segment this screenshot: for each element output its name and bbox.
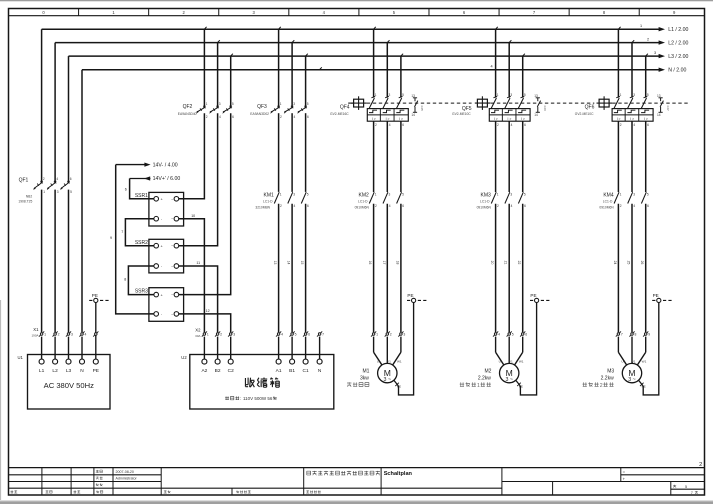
svg-text:W1: W1 [519,360,524,364]
svg-text:KM3: KM3 [481,193,492,199]
svg-text:EA9AN3D02: EA9AN3D02 [250,112,269,116]
svg-text:U1: U1 [377,360,381,364]
wire motor M1 PE [394,303,414,395]
motor M1 3kw 3-phase [347,360,402,387]
wire bus taps to QF6 [618,29,645,97]
svg-text:2007-08-20: 2007-08-20 [116,470,134,474]
svg-text:C2: C2 [228,368,234,374]
wire X3 to motor M3 [618,337,645,366]
svg-text:3: 3 [293,102,295,106]
svg-text:M3: M3 [607,368,614,374]
wire QF2 pole3 to SSR3 [179,113,231,294]
svg-text:2: 2 [375,204,377,208]
svg-text:3 ~: 3 ~ [384,377,392,383]
svg-text:3: 3 [654,51,656,55]
svg-text:AC 380V 50Hz: AC 380V 50Hz [44,381,94,390]
svg-text:5: 5 [70,190,72,194]
svg-text:18: 18 [395,261,399,265]
svg-text:LC1-D: LC1-D [603,200,613,204]
wire bus taps to QF3 [278,29,280,107]
svg-text:2: 2 [280,204,282,208]
motor M2 2.2kw 3-phase [460,360,524,389]
svg-text:4: 4 [511,204,513,208]
svg-text:3 ~: 3 ~ [505,377,513,383]
svg-text:2: 2 [620,204,622,208]
svg-text:13: 13 [411,94,415,98]
svg-text:3: 3 [633,192,635,196]
terminal strip X2 30A [195,327,324,338]
motor breaker QF5 GV2-ME10C [452,93,547,127]
device U2 heater box shrink tunnel [181,355,333,410]
svg-text:2: 2 [280,115,282,119]
svg-text:2: 2 [220,333,222,337]
svg-text:4: 4 [294,115,296,119]
svg-text:QF6: QF6 [585,105,595,111]
svg-text:1: 1 [640,24,642,28]
wire QF3 to KM1 [278,113,280,192]
svg-text:13: 13 [657,94,661,98]
svg-text:1: 1 [280,192,282,196]
svg-text:9: 9 [648,333,650,337]
svg-text:3210MBN: 3210MBN [255,205,270,209]
svg-text:1: 1 [207,333,209,337]
svg-text:5: 5 [647,93,649,97]
svg-text:L3 / 2.00: L3 / 2.00 [668,54,688,60]
svg-text:4: 4 [498,333,500,337]
svg-text:3: 3 [233,333,235,337]
svg-text:2.2kw: 2.2kw [601,375,614,381]
svg-text:16: 16 [368,261,372,265]
svg-text:I >: I > [521,117,525,121]
wire QF2 pole1 to SSR1 [179,113,205,199]
svg-text:2: 2 [647,37,649,41]
wire KM4 to X3 with numbers 24 25 26 [613,204,646,332]
svg-text:3: 3 [219,102,221,106]
svg-text:KM4: KM4 [603,193,614,199]
wire motor M2 PE [516,303,537,395]
wire L2 feeder to QF1 [54,43,56,182]
svg-text:U1: U1 [621,360,625,364]
svg-text:6: 6 [232,115,234,119]
wire QF5 to KM3 [496,121,523,192]
svg-text:25: 25 [627,261,631,265]
wire X1 to U1 terminals [42,337,82,360]
svg-text:SSR3: SSR3 [135,288,148,294]
svg-text:6: 6 [308,333,310,337]
svg-text:B2: B2 [215,368,221,374]
svg-text:3: 3 [633,93,635,97]
PE symbol for motor M2 [530,293,551,303]
svg-text:5: 5 [402,93,404,97]
wire 12 SSR3 to X2:3 [179,309,231,332]
contactor KM3 LC1-D 0910MBN [477,192,526,209]
contactor KM4 LC1-D 0910MBN [599,192,649,209]
svg-text:0910M6N: 0910M6N [477,205,492,209]
svg-text:5: 5 [685,485,687,489]
svg-text:1: 1 [497,93,499,97]
svg-text:26: 26 [640,261,644,265]
svg-text:2: 2 [620,123,622,127]
wire L3 feeder to QF1 [68,56,70,182]
svg-text:15: 15 [300,261,304,265]
svg-text:1: 1 [44,333,46,337]
terminal strip X3 terminals 4-6 [493,331,527,336]
svg-text:X2: X2 [195,327,201,332]
svg-text:6: 6 [402,123,404,127]
svg-text:5: 5 [524,192,526,196]
svg-text:I >: I > [494,117,498,121]
svg-text:110V 500W 56: 110V 500W 56 [243,396,273,401]
svg-text:3kw: 3kw [360,375,369,381]
svg-text:1: 1 [620,192,622,196]
wire bus taps to QF2 [203,29,205,107]
wire bus taps to QF4 [374,29,401,97]
svg-text:L2 / 2.00: L2 / 2.00 [668,40,688,46]
svg-text:GV2-ME16C: GV2-ME16C [330,112,349,116]
svg-text:1: 1 [477,383,480,389]
svg-text:I >: I > [630,117,634,121]
wire KM2 to X3 with numbers 16 17 18 [368,204,401,332]
svg-text:6: 6 [402,204,404,208]
svg-text:4: 4 [491,65,493,69]
svg-text:2: 2 [497,123,499,127]
svg-text:I >: I > [399,117,403,121]
svg-text:I >: I > [617,117,621,121]
svg-text:6: 6 [70,177,72,181]
svg-text:I >: I > [386,117,390,121]
svg-text:LC1-D: LC1-D [480,200,490,204]
svg-text:L2: L2 [52,368,58,374]
svg-text:6: 6 [307,115,309,119]
svg-text:Schaltplan: Schaltplan [384,471,413,477]
svg-text:14V- / 4.00: 14V- / 4.00 [153,162,178,168]
wire motor M3 PE [639,303,659,395]
svg-text:2: 2 [206,115,208,119]
svg-text:0910M6N: 0910M6N [355,205,370,209]
svg-text::: : [240,396,241,401]
signal arrow 14V+ / 6.00 [130,176,181,182]
svg-text:GV2-ME10C: GV2-ME10C [452,112,471,116]
svg-text:5: 5 [232,102,234,106]
svg-text:I >: I > [508,117,512,121]
svg-text:4.07: 4.07 [666,105,670,111]
title block [9,468,705,496]
wire N feeder to X1 [81,70,83,333]
wire KM3 to X3 with numbers 20 21 22 [490,204,523,332]
svg-text:U1: U1 [499,360,503,364]
contactor KM1 LC1-D 3210MBN [255,192,309,209]
motor M3 2.2kw 3-phase [583,360,647,389]
svg-text:PE: PE [530,293,536,298]
svg-text:20: 20 [490,261,494,265]
wire QF1 to X1 phase 2 [54,190,56,333]
svg-text:W1: W1 [397,360,402,364]
wire L1 bus / 2.00 [42,28,660,30]
PE symbol for motor M3 [652,293,673,303]
svg-text:L1 / 2.00: L1 / 2.00 [668,27,688,33]
svg-text:14: 14 [411,113,415,117]
svg-text:B1: B1 [289,368,295,374]
svg-text:22: 22 [517,261,521,265]
svg-text:17: 17 [382,261,386,265]
svg-text:1: 1 [280,102,282,106]
svg-text:2: 2 [600,383,603,389]
svg-text:3 ~: 3 ~ [628,377,636,383]
svg-text:8: 8 [124,278,126,282]
wire N bus / 2.00 [82,69,660,71]
svg-text:2.2kw: 2.2kw [478,375,491,381]
svg-text:A2: A2 [201,368,207,374]
svg-text:L3: L3 [66,368,72,374]
svg-text:1: 1 [497,192,499,196]
svg-text:PE: PE [93,368,99,374]
svg-text:6: 6 [647,204,649,208]
svg-text:10: 10 [191,214,195,218]
svg-text:5: 5 [512,333,514,337]
svg-text:11: 11 [196,261,200,265]
svg-text:LC1-D: LC1-D [358,200,368,204]
svg-text:7: 7 [322,333,324,337]
motor breaker QF4 GV2-ME16C [330,93,424,127]
svg-text:KM2: KM2 [359,193,370,199]
svg-text:4: 4 [511,123,513,127]
svg-text:PE: PE [92,293,98,298]
wire 9 14V- to SSR3 [110,165,154,314]
terminal strip X3 terminals 7-9 [616,331,650,336]
svg-text:W1: W1 [642,360,647,364]
svg-text:9: 9 [110,236,112,240]
svg-text:4: 4 [389,123,391,127]
svg-text:24: 24 [613,261,617,265]
svg-text:6: 6 [647,123,649,127]
svg-text:3: 3 [389,93,391,97]
svg-text:4: 4 [219,115,221,119]
wire QF2 pole2 to SSR2 [179,113,218,246]
wire L3 bus / 2.00 [69,55,660,57]
svg-text:N: N [80,368,84,374]
svg-text:5: 5 [524,93,526,97]
svg-text:6: 6 [307,204,309,208]
svg-text:QF4: QF4 [340,105,350,111]
svg-text:4: 4 [389,204,391,208]
svg-text:190A: 190A [31,334,38,338]
wire QF4 to KM2 [374,121,401,192]
PE terminal symbol at X1 [89,293,110,303]
svg-text:3: 3 [389,192,391,196]
svg-text:4: 4 [633,204,635,208]
svg-text:1: 1 [206,102,208,106]
circuit breaker QF2 EA9AN3D40 3-pole [178,102,234,119]
svg-text:7: 7 [121,230,123,234]
svg-text:QF5: QF5 [462,106,472,112]
svg-text:2: 2 [699,462,702,468]
svg-text:I >: I > [372,117,376,121]
svg-text:6: 6 [125,188,127,192]
svg-text:3: 3 [57,190,59,194]
svg-text:6: 6 [525,333,527,337]
circuit breaker QF3 EA9AN3D32 3-pole [250,102,309,119]
svg-text:8: 8 [635,333,637,337]
svg-text:U1: U1 [18,355,24,360]
wire X2 to U2 terminals [204,337,319,360]
svg-text:A1: A1 [276,368,282,374]
wire L2 bus / 2.00 [55,42,660,44]
svg-text:6: 6 [524,123,526,127]
wire L1 feeder to QF1 [41,29,43,182]
svg-text:0910M6N: 0910M6N [599,205,614,209]
svg-text:I >: I > [644,117,648,121]
svg-text:4: 4 [85,333,87,337]
svg-text:1: 1 [375,192,377,196]
wire 8 SSR2 to SSR3 [124,266,154,295]
svg-text:1: 1 [376,333,378,337]
svg-text:Administrator: Administrator [116,477,138,481]
wire 6 14V+ to SSR1 [125,179,154,199]
svg-text:U2: U2 [181,355,187,360]
svg-text:14: 14 [534,113,538,117]
wire QF6 to KM4 [618,121,645,192]
svg-text:1: 1 [620,93,622,97]
svg-text:2: 2 [58,333,60,337]
svg-text:1908.T25: 1908.T25 [18,199,32,203]
svg-text:QF2: QF2 [183,104,193,110]
wire KM1 to X2 with numbers 13 14 15 [273,204,306,332]
svg-text:3: 3 [293,192,295,196]
svg-text:7: 7 [691,491,693,495]
svg-text:30A: 30A [195,334,200,338]
circuit breaker QF1 (NB2 1908.T25) 3-pole [18,177,72,203]
svg-text:2: 2 [390,333,392,337]
wire X3 to motor M2 [496,337,523,366]
contactor KM2 LC1-D 0910MBN [355,192,405,209]
wire X3 to motor M1 [374,337,401,366]
svg-text:3: 3 [71,333,73,337]
svg-text:SSR1: SSR1 [135,193,148,199]
wire 10 SSR1 to X2:1 [179,214,205,332]
svg-text:KM1: KM1 [264,193,275,199]
PE symbol for motor M1 [407,293,428,303]
svg-text:PE: PE [407,293,413,298]
signal arrow 14V- / 4.00 [116,162,178,168]
svg-text:3: 3 [403,333,405,337]
terminal strip X1 190A [31,327,98,338]
solid state relay SSR3 [135,288,184,322]
svg-text:LC1-D: LC1-D [263,200,273,204]
svg-text:M1: M1 [362,368,369,374]
svg-text:4: 4 [294,204,296,208]
motor breaker QF6 GV2-ME10C [575,93,670,127]
wire 11 SSR2 to X2:2 [179,261,218,332]
svg-text:1: 1 [375,93,377,97]
svg-text:PE: PE [653,293,659,298]
svg-text:14V+' / 6.00: 14V+' / 6.00 [153,176,181,182]
svg-text:L1: L1 [39,368,45,374]
solid state relay SSR1 [135,192,184,226]
svg-text:4.05: 4.05 [420,105,424,111]
svg-text:C1: C1 [303,368,309,374]
svg-text:5: 5 [307,102,309,106]
wire bus taps to QF5 [496,29,523,97]
svg-text:4: 4 [56,177,58,181]
svg-text:4.06: 4.06 [543,105,547,111]
svg-text:2: 2 [43,177,45,181]
svg-text:5: 5 [307,192,309,196]
svg-text:NB2: NB2 [26,194,33,198]
svg-text:N / 2.00: N / 2.00 [668,68,686,74]
svg-text:3: 3 [510,192,512,196]
svg-text:5: 5 [647,192,649,196]
wire QF1 to X1 phase 1 [41,190,43,333]
dashed trip linkage line QF4-QF6 [348,102,688,104]
svg-text:N: N [318,368,322,374]
svg-text:1: 1 [43,190,45,194]
svg-text:M2: M2 [484,368,491,374]
svg-text:4: 4 [633,123,635,127]
svg-text:14: 14 [287,261,291,265]
device U1 AC 380V 50Hz supply box [18,355,111,410]
svg-text:6: 6 [524,204,526,208]
wire 7 SSR1 to SSR2 [121,219,154,246]
svg-text:QF3: QF3 [257,104,267,110]
svg-text:QF1: QF1 [19,178,29,184]
svg-text:13: 13 [273,261,277,265]
svg-text:13: 13 [534,94,538,98]
svg-text:2: 2 [375,123,377,127]
svg-text:2: 2 [497,204,499,208]
svg-text:5: 5 [295,333,297,337]
svg-text:EA9AN3D40: EA9AN3D40 [178,112,197,116]
svg-text:14: 14 [657,113,661,117]
svg-text:12: 12 [206,309,210,313]
svg-text:GV2-ME10C: GV2-ME10C [575,112,594,116]
svg-text:7: 7 [621,333,623,337]
svg-text:X1: X1 [33,327,39,332]
svg-text:5: 5 [402,192,404,196]
wire PE to U1 [95,303,97,360]
svg-text:4: 4 [281,333,283,337]
solid state relay SSR2 [135,239,184,273]
terminal strip X3 terminals 1-3 [371,331,405,336]
svg-text:3: 3 [510,93,512,97]
svg-text:21: 21 [504,261,508,265]
wire QF1 to X1 phase 3 [68,190,70,333]
